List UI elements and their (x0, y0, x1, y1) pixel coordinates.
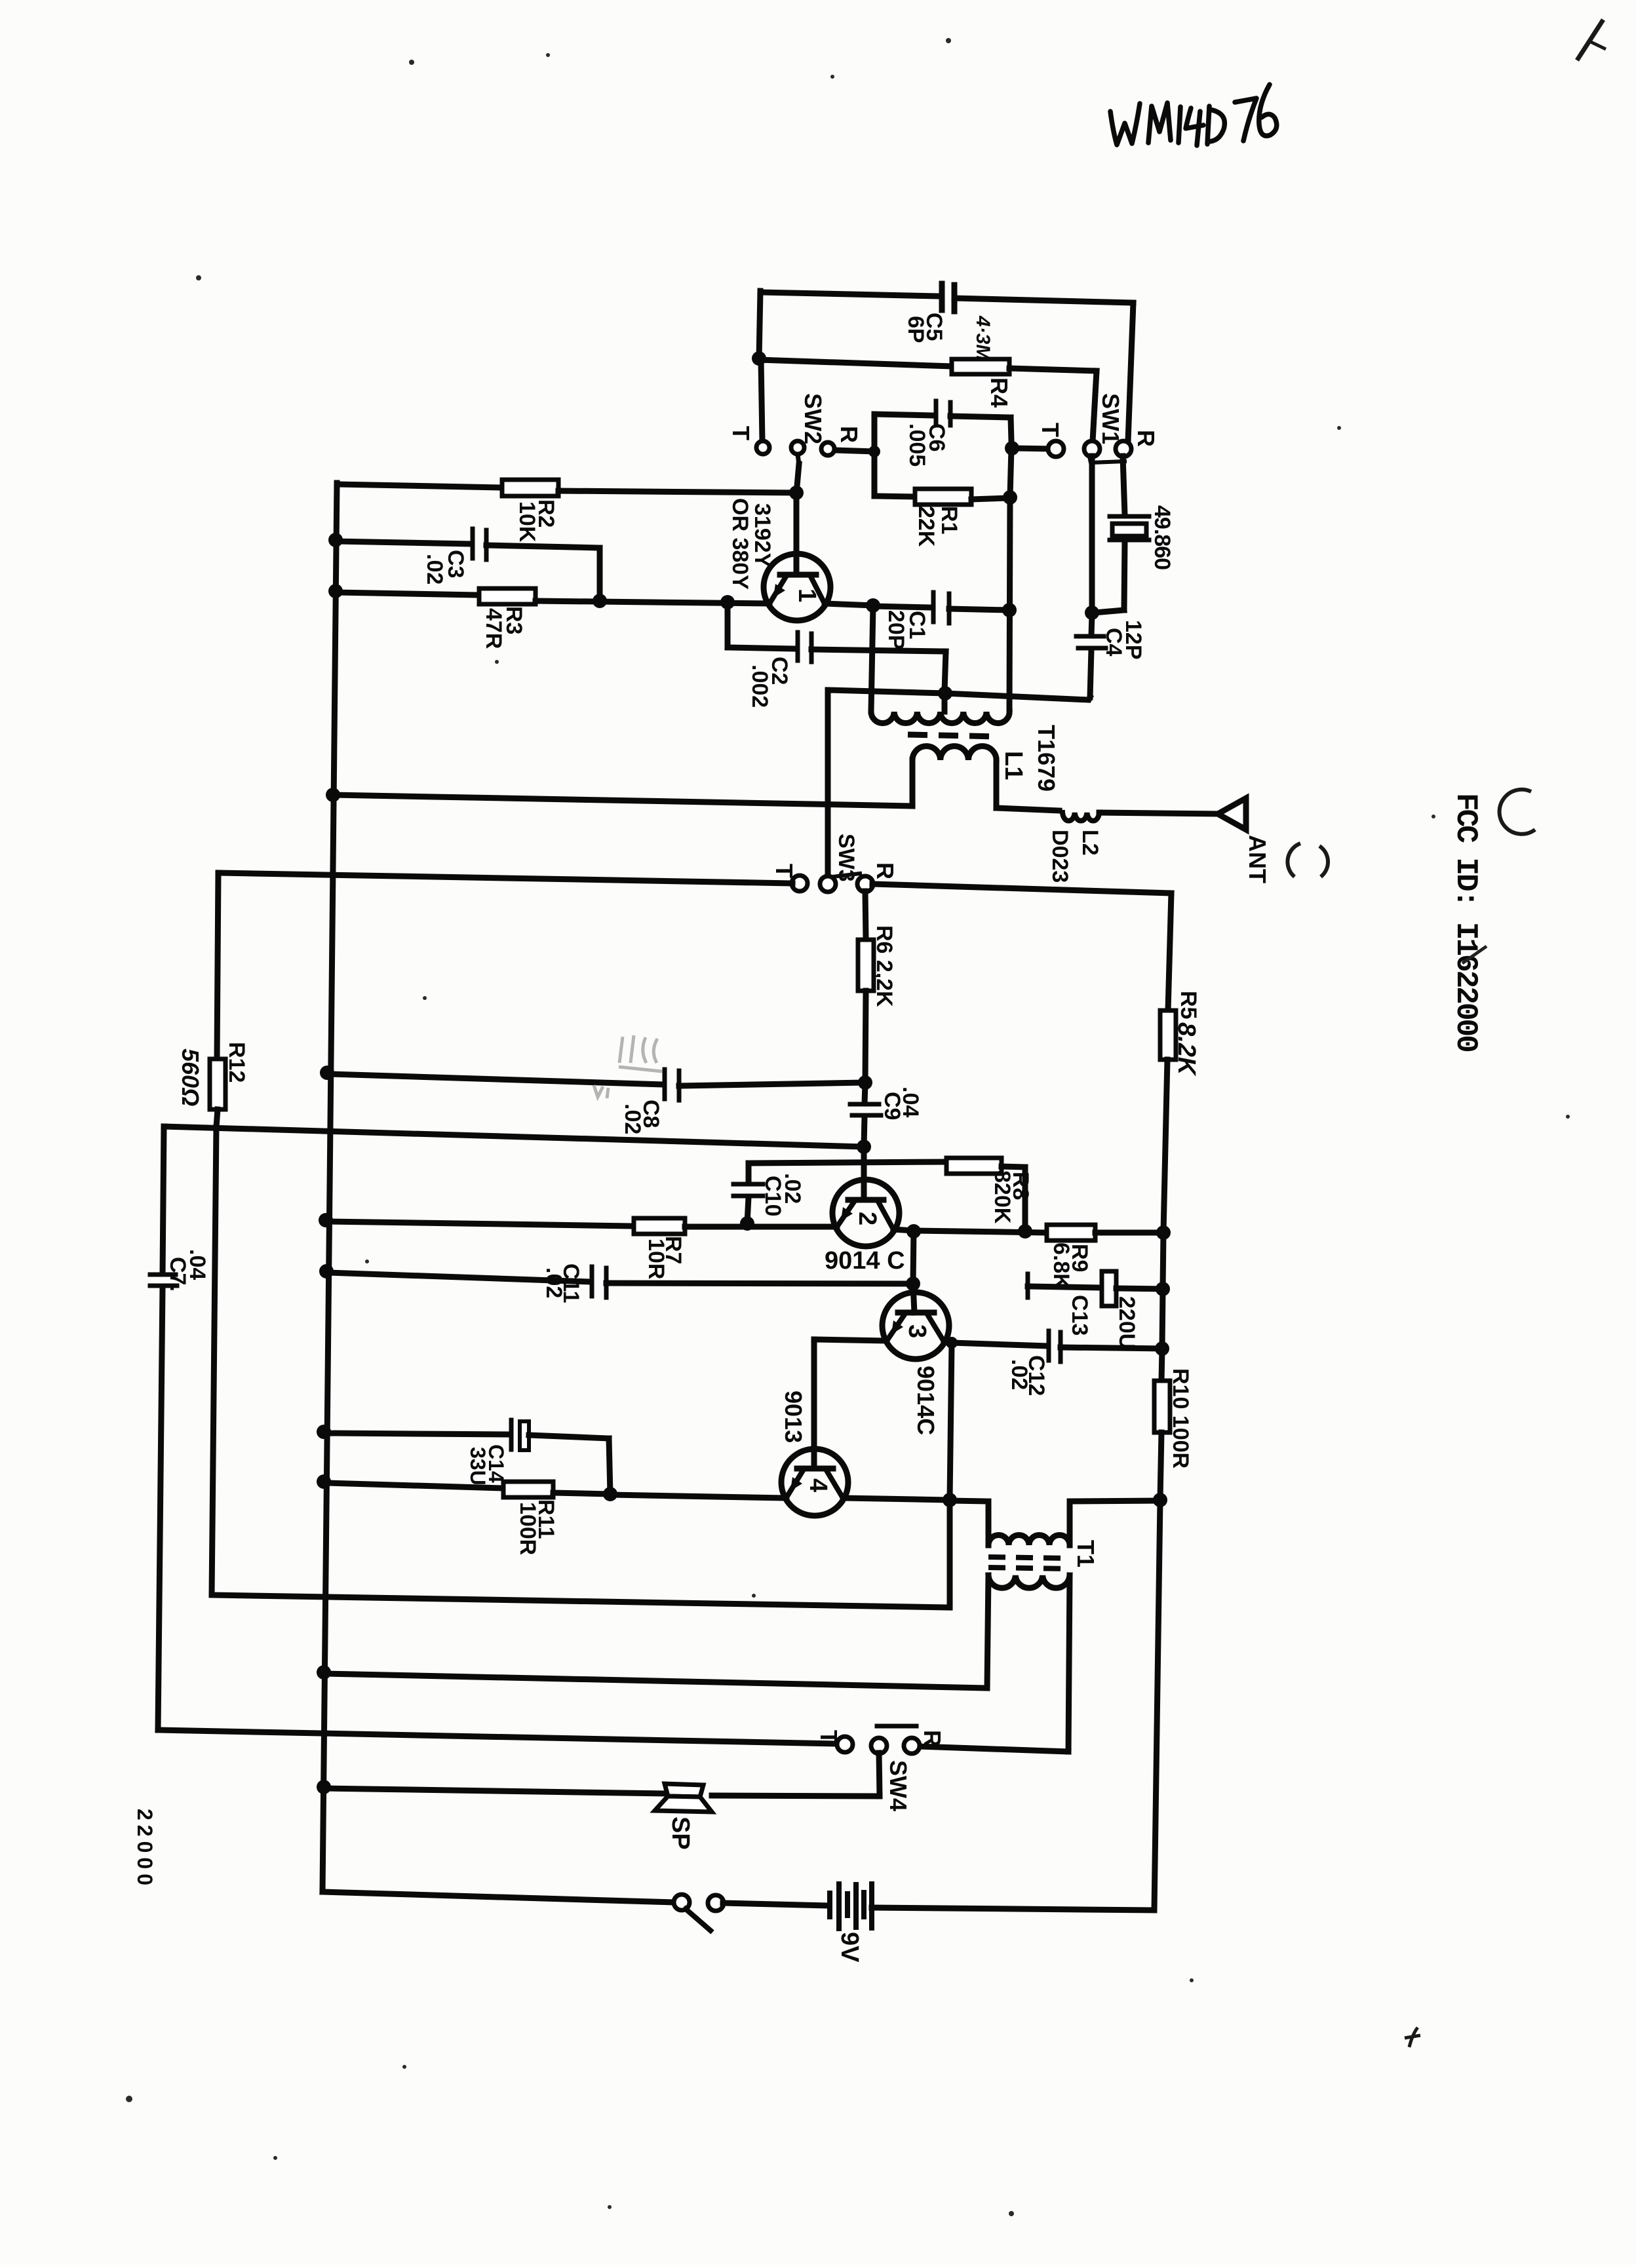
svg-text:820K: 820K (990, 1170, 1015, 1224)
svg-text:47R: 47R (481, 608, 506, 649)
resistor R5 (8.2K) (1160, 1010, 1176, 1060)
transistor Q1 (3192Y OR 380Y) oscillator (764, 554, 830, 621)
wire Q2 collector to R9 (893, 1229, 914, 1231)
node E junction bus/C3 (328, 533, 343, 547)
svg-text:R: R (872, 862, 899, 879)
node N junction R6/C8/C9 (858, 1075, 872, 1090)
svg-text:C4: C4 (1101, 628, 1126, 657)
capacitor C2 (.002) feedback (725, 603, 731, 647)
antenna ANT (1218, 798, 1246, 830)
node U junction C11/Q3 base (906, 1277, 920, 1291)
wire left corner down to R12 (217, 873, 218, 1059)
paper specks (409, 60, 414, 65)
node V junction Q3 collector/C12 (946, 1337, 958, 1349)
svg-text:9014 C: 9014 C (825, 1247, 905, 1275)
wire battery to right rail (872, 1501, 1160, 1910)
svg-text:R12: R12 (224, 1042, 249, 1083)
faint pencil 1166 note (619, 1035, 662, 1071)
svg-text:8.2K: 8.2K (1173, 1022, 1200, 1077)
svg-text:C7.: C7. (165, 1257, 190, 1292)
node I junction collector/C1/C2/T1679 (866, 598, 880, 613)
node M junction R1 right (1003, 490, 1017, 505)
pencil strike on FCC ID character (1462, 946, 1487, 963)
svg-text:T1: T1 (1072, 1540, 1099, 1567)
svg-text:100R: 100R (515, 1502, 540, 1555)
svg-text:T: T (1037, 423, 1064, 437)
switch SW4 arm bar (877, 1724, 916, 1729)
inductor L2 (D023) antenna coil (1062, 813, 1099, 821)
svg-text:33U: 33U (466, 1447, 490, 1486)
svg-text:22K: 22K (914, 506, 939, 547)
capacitor C1 (20P) (873, 606, 931, 607)
svg-text:SP: SP (667, 1816, 694, 1850)
capacitor C11 (.02) from bus (319, 1264, 334, 1278)
node W junction C12/R5-R10 rail (1155, 1341, 1169, 1356)
node S junction Q2 collector (906, 1224, 921, 1239)
svg-text:.005: .005 (905, 423, 929, 467)
svg-text:R: R (836, 426, 863, 443)
wire SW1 R pole down to crystal (1123, 456, 1125, 515)
wire R12 bottom down and across to Q3/Q4 collector rail (212, 1127, 950, 1607)
wire Q4 collector to node Y2 (843, 1498, 950, 1500)
wire SW1 left pole down to node B (1089, 456, 1095, 613)
capacitor C4 (12P) (1091, 614, 1092, 636)
wire L1 secondary to main bus (333, 795, 912, 806)
svg-text:.02: .02 (422, 554, 447, 585)
capacitor C7 (.04) (163, 1126, 164, 1274)
svg-text:ANT: ANT (1244, 835, 1271, 883)
wire R5 rail down through nodes (1163, 1234, 1163, 1288)
wire bus bottom corner to power switch (322, 1892, 674, 1902)
wire Q3 emitter to Q4 base (814, 1339, 887, 1341)
capacitor C9 (.04) (865, 1084, 865, 1104)
switch SW4 T pole (837, 1737, 853, 1752)
node L1-bus junction (326, 788, 340, 802)
wire C7 bottom to SW4 T pole (crosses bus) (158, 1730, 837, 1744)
svg-text:.002: .002 (747, 664, 772, 708)
svg-text:4: 4 (804, 1478, 832, 1492)
transformer T1679 core (dashed) (908, 735, 998, 737)
node O junction C9/R12-wire/Q2 base (857, 1140, 871, 1154)
svg-text:C13: C13 (1067, 1295, 1092, 1336)
wire T1 secondary left to bus (317, 1665, 331, 1680)
wire R4 right corner down to SW1 left pole (1093, 371, 1097, 441)
resistor R10 (100R) (1161, 1349, 1162, 1381)
capacitor C5 (6P) on top feedback wire (760, 292, 940, 296)
switch SW4 middle pole (871, 1738, 887, 1754)
node A junction of C5 / R4 / SW2-T (752, 351, 766, 366)
power switch (674, 1894, 690, 1910)
svg-text:L1: L1 (1000, 751, 1027, 780)
wire Q3/Q4 collector rail vertical (950, 1343, 952, 1499)
node R junction C10/emitter rail (740, 1216, 754, 1231)
ink stamp arcs (1287, 843, 1300, 877)
svg-text:SW1: SW1 (1097, 393, 1124, 444)
svg-text:C9: C9 (880, 1092, 905, 1120)
wire top-right vertical down to SW1 R pole (1128, 303, 1133, 441)
transformer T1 core (dashed) (988, 1557, 1071, 1558)
speaker SP (317, 1780, 331, 1794)
wire collector node down to Q3 base node (913, 1231, 914, 1283)
svg-text:R: R (1133, 430, 1159, 447)
resistor R4 (4-3M) feedback resistor (759, 360, 952, 366)
switch SW3 arm (832, 874, 860, 877)
transformer T1 primary winding (950, 1501, 988, 1545)
switch SW1 T pole terminal (1048, 441, 1064, 457)
transistor Q2 (9014C) detector (832, 1180, 899, 1246)
resistor R9 (6.8K) (1047, 1225, 1095, 1240)
battery BT 9V (827, 1893, 832, 1917)
wire C4 to T1679 center tap and SW3 riser (828, 690, 1090, 700)
wire Q1 base from node D (794, 493, 800, 575)
node G junction C3/emitter rail (593, 594, 607, 608)
small tick mark bottom right (1405, 2028, 1420, 2047)
svg-text:R6 2,2K: R6 2,2K (872, 925, 897, 1007)
wire Q1 collector to node I (825, 604, 873, 605)
wire Q4 emitter to node Z (610, 1495, 787, 1498)
faint pencil vi note (594, 1085, 608, 1098)
switch SW2 arm (798, 455, 799, 464)
switch SW1 R pole (1116, 441, 1131, 457)
svg-text:3192Y: 3192Y (750, 503, 775, 568)
wire SW2 arm to node D (797, 464, 799, 486)
svg-text:220U: 220U (1114, 1296, 1139, 1349)
transistor Q4 (9013) AF output (781, 1449, 848, 1516)
switch SW2 R pole (821, 442, 834, 455)
switch SW3 middle pole (820, 876, 836, 892)
capacitor C13 (220U) electrolytic (1026, 1274, 1030, 1297)
wire top-left vertical from C5 wire down to node A (759, 291, 760, 358)
switch SW2 T pole (756, 441, 769, 454)
wire C7 top corner / R12 junction horizontal to C9 node (164, 1126, 864, 1147)
wire T1 secondary right to SW4 R pole (919, 1746, 1068, 1752)
node D junction R2/SW2/Q1 base (789, 486, 804, 500)
main bus vertical wire (322, 483, 337, 1892)
resistor R1 (22K) (874, 496, 915, 497)
resistor R11 (100R) from bus (317, 1474, 331, 1489)
svg-text:T: T (815, 1730, 842, 1744)
capacitor C6 (.005) (874, 414, 933, 415)
switch SW3 R pole (857, 876, 873, 892)
svg-text:20P: 20P (884, 610, 908, 650)
handwritten WM1D76 marking (1110, 85, 1277, 145)
wire SW1 T pole to node L (1012, 448, 1057, 449)
switch SW3 T pole (792, 875, 808, 891)
node K junction SW2-R wire (868, 446, 880, 457)
capacitor C8 (.02) from bus (320, 1066, 334, 1080)
transistor Q3 (9014C) first AF amp (913, 1284, 914, 1313)
wire C3 down to emitter rail (597, 548, 603, 600)
svg-text:9013: 9013 (780, 1391, 807, 1443)
node L junction T-pole rail (1005, 441, 1019, 455)
svg-text:4·3M: 4·3M (972, 315, 994, 361)
transformer T1679 primary winding (871, 606, 873, 711)
capacitor C14 (33U) from bus (317, 1425, 331, 1439)
svg-text:SW4: SW4 (885, 1760, 912, 1811)
resistor R7 (10R) emitter (330, 1221, 634, 1226)
switch SW1 arm bracket (1089, 457, 1125, 463)
svg-text:R1: R1 (937, 506, 962, 534)
svg-text:OR 380Y: OR 380Y (728, 498, 752, 590)
crystal 49.860 (XTAL) (1110, 514, 1149, 519)
capacitor C10 (.02) (746, 1163, 752, 1183)
wire C6 left leg down to R1 (872, 414, 878, 496)
node B junction crystal/C4 (1085, 605, 1099, 620)
node J junction C1/R1/C6 rail (1002, 603, 1017, 617)
resistor R6 (2.2K) from SW3 R pole (865, 891, 866, 940)
switch SW3 R pole wire to R5 (872, 884, 1171, 893)
svg-text:R4: R4 (986, 377, 1013, 408)
svg-text:9V: 9V (836, 1932, 863, 1963)
resistor R8 (820K) and C10 branch (749, 1162, 946, 1163)
svg-text:.02: .02 (1007, 1359, 1032, 1390)
switch SW1 (T/R) left pole (1084, 441, 1100, 457)
svg-text:9014C: 9014C (912, 1366, 939, 1435)
capacitor C12 (.02) (952, 1343, 1047, 1346)
svg-text:SW3: SW3 (834, 834, 859, 882)
switch SW4 R pole (904, 1738, 920, 1754)
svg-text:6P: 6P (903, 316, 928, 343)
node Y junction R10/T1/battery rail (1153, 1493, 1167, 1507)
svg-text:T: T (771, 864, 798, 878)
wire SW4 middle pole riser to speaker wire (879, 1753, 880, 1796)
node Y2 junction Q4 collector/T1 primary (943, 1493, 957, 1507)
node C center-tap junction (938, 686, 952, 701)
wire C6/T/R1 rail down to T1679 right (1010, 448, 1011, 496)
svg-text:.02: .02 (541, 1267, 566, 1298)
svg-text:R10 100R: R10 100R (1168, 1368, 1193, 1469)
node Q junction R8 right / collector rail (1018, 1224, 1032, 1239)
svg-text:10R: 10R (644, 1239, 669, 1279)
capacitor C3 (.02) (336, 541, 471, 544)
svg-text:R5: R5 (1176, 991, 1201, 1019)
svg-text:49.860: 49.860 (1150, 505, 1175, 569)
svg-text:D023: D023 (1047, 830, 1072, 883)
resistor R3 (47R) emitter resistor (336, 592, 479, 595)
svg-text:22000: 22000 (133, 1809, 157, 1890)
node T junction R9/R5/R10 (1156, 1225, 1171, 1240)
svg-text:6.8K: 6.8K (1049, 1242, 1074, 1290)
wire SW3 T pole to left corner (218, 873, 792, 883)
svg-text:FCC ID: I1622000: FCC ID: I1622000 (1449, 793, 1483, 1051)
wire power switch to battery (723, 1903, 828, 1906)
wire Q2 base (861, 1147, 867, 1200)
switch SW2 middle pole (791, 441, 804, 454)
svg-text:L2: L2 (1078, 830, 1102, 856)
wire SW2 R pole to node K (835, 450, 874, 452)
resistor R12 (560R) (210, 1059, 225, 1109)
svg-text:10K: 10K (515, 501, 539, 543)
svg-text:2: 2 (853, 1212, 881, 1225)
node X junction C13/R5 rail (1156, 1282, 1170, 1296)
wire node A down to SW2 T pole (761, 360, 762, 440)
transformer T1679 secondary winding L1 (912, 746, 996, 760)
node H junction C2/emitter rail (720, 595, 735, 609)
svg-text:SW2: SW2 (800, 393, 827, 444)
svg-text:3: 3 (903, 1324, 931, 1338)
resistor R2 (10K) base bias (337, 484, 502, 488)
wire SW3 riser vertical (825, 690, 831, 877)
svg-text:R: R (919, 1730, 946, 1747)
node F junction bus/R3 (328, 584, 343, 598)
node P junction bus/R7 (319, 1213, 333, 1227)
svg-text:T: T (728, 426, 754, 440)
svg-text:1: 1 (793, 588, 821, 602)
svg-text:560Ω: 560Ω (177, 1048, 204, 1106)
transformer T1 secondary winding (988, 1575, 1070, 1588)
svg-text:.02: .02 (620, 1104, 645, 1134)
svg-text:C10: C10 (760, 1176, 785, 1216)
node Z junction R11/C14/Q4 emitter (603, 1487, 617, 1501)
svg-text:T1679: T1679 (1033, 725, 1060, 792)
